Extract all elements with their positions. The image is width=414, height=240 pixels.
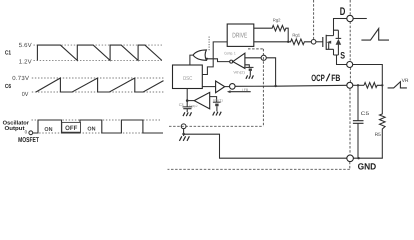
svg-text:MOSFET: MOSFET [18, 137, 39, 144]
wire gate output to OSC top [190, 55, 193, 65]
terminal GND [347, 155, 354, 162]
svg-text:S: S [340, 50, 345, 61]
IC pin circle on bottom boundary [181, 124, 186, 129]
svg-text:0.73V: 0.73V [12, 75, 29, 82]
reference battery Vth2 [246, 66, 254, 68]
node dot OCP corner [274, 85, 276, 87]
inverting bubble Comp.1 [230, 60, 233, 63]
svg-text:Vth(2): Vth(2) [233, 70, 245, 74]
node dot GND wire [182, 133, 185, 136]
wire S to right branch [353, 65, 383, 86]
dashed level 5.6V [34, 44, 164, 46]
VR waveform glyph [388, 82, 407, 88]
terminal S [347, 62, 353, 68]
svg-text:R5: R5 [375, 132, 381, 138]
svg-text:OCP: OCP [311, 73, 325, 83]
waveform C6 sawtooth [36, 78, 164, 92]
svg-text:FB: FB [331, 73, 340, 83]
ground below Vth2 [246, 75, 253, 78]
capacitor C3 [183, 101, 193, 112]
reference battery Vth1 [213, 101, 221, 103]
IC boundary dashed right edge [262, 49, 264, 126]
terminal D [347, 15, 353, 21]
svg-text:DRIVE: DRIVE [232, 33, 247, 40]
svg-text:C1: C1 [5, 50, 12, 57]
svg-text:Rg1: Rg1 [292, 32, 300, 37]
svg-text:0V: 0V [22, 91, 29, 98]
wire OSC right to DRIVE left [202, 42, 227, 75]
waveform C1 sawtooth [37, 45, 161, 60]
dashed GND chassis link [168, 162, 350, 170]
svg-text:1.2V: 1.2V [19, 58, 32, 65]
svg-text:OFF: OFF [65, 125, 77, 132]
comp2 reference input wire [210, 97, 217, 102]
svg-text:5.6V: 5.6V [19, 42, 32, 49]
node dot gate output [206, 58, 208, 60]
pin circle comp1 at boundary [261, 55, 266, 60]
wire into buffer [202, 86, 215, 88]
node dot C5 bottom [357, 157, 359, 159]
wire pin to OCP node [266, 58, 275, 86]
wire comp2 output to node [187, 100, 194, 102]
ground below IC pin [179, 136, 189, 141]
wire pin to MOSFET gate [316, 41, 323, 43]
IC boundary dashed bottom edge [169, 125, 263, 127]
pin circle gate [311, 40, 316, 45]
comp1 reference input wire [245, 65, 249, 68]
sense resistor between OCP and S branch [364, 83, 382, 89]
wire comp1 output to gate input [206, 59, 230, 62]
dashed top level oscillator [32, 119, 161, 121]
svg-text:Rg2: Rg2 [273, 17, 281, 22]
comparator Comp.2 (pointing left) [194, 92, 210, 108]
wire comp1 + input to pin [245, 57, 261, 59]
wire pin down [183, 129, 185, 136]
svg-text:OSC: OSC [183, 76, 193, 82]
svg-text:GND: GND [358, 162, 377, 172]
svg-text:ON: ON [44, 127, 52, 133]
current source circle [230, 84, 236, 90]
body diode D1 [334, 30, 339, 55]
node dot C5 top [357, 84, 359, 86]
OFF box [62, 122, 81, 132]
dotted line into gate top input [208, 37, 210, 52]
svg-text:Comp. 1: Comp. 1 [224, 51, 236, 55]
dashed vertical pin column x=350.2 [349, 0, 351, 155]
drain waveform glyph [361, 29, 389, 41]
svg-text:C5: C5 [361, 111, 370, 117]
DRIVE block [227, 24, 254, 46]
wire OCP node to terminal [276, 84, 347, 87]
wire buffer to current source [225, 86, 230, 88]
Ifb arrow [229, 91, 251, 93]
wire terminal to C5 node [353, 84, 364, 86]
dashed level 1.2V [34, 59, 164, 61]
OSC block [173, 65, 203, 89]
wire GND rail right segment [353, 157, 382, 159]
dashed level 0V [32, 91, 164, 93]
ground below C3 [183, 112, 192, 116]
MOSFET substrate arrow [326, 41, 331, 44]
node dot Rg junction [287, 41, 289, 43]
svg-text:D: D [340, 6, 346, 18]
svg-text:C6: C6 [5, 83, 12, 90]
ground below comp2 ref [213, 112, 221, 116]
gate U1 (OR gate pointing left) [193, 50, 206, 60]
dashed vertical at gate pin x=313.6 [313, 0, 315, 39]
oscillator square wave [33, 120, 163, 133]
svg-text:ON: ON [87, 127, 95, 133]
IC boundary dashed top-right segment [248, 48, 263, 50]
oscillator output terminal circle [29, 131, 33, 135]
wire MOSFET source to S [337, 55, 347, 65]
dashed level 0.73V [32, 77, 164, 79]
node dot at S branch [381, 84, 383, 86]
wire GND rail left segment [184, 134, 347, 158]
svg-text:Vth(1): Vth(1) [213, 99, 223, 103]
wire D right stub [353, 18, 367, 20]
MOSFET Q1 [323, 35, 326, 50]
terminal OCP/FB [347, 82, 353, 88]
svg-text:Output: Output [5, 126, 25, 132]
node dot comp2 [186, 99, 189, 102]
wire D left to MOSFET [334, 18, 347, 20]
buffer amplifier [216, 81, 225, 93]
svg-text:0: 0 [25, 129, 28, 134]
svg-text:VR: VR [402, 78, 409, 84]
wire current source to OCP node [235, 85, 276, 87]
dashed bottom level oscillator [33, 132, 163, 134]
wire node up to OSC bottom [186, 89, 188, 101]
svg-text:I FB: I FB [242, 88, 249, 92]
